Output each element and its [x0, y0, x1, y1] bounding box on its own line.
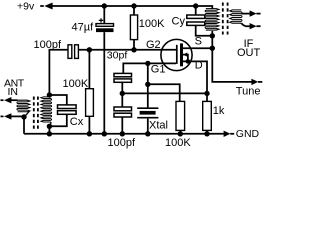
- wire G1 / 30pf wire: [123, 63, 176, 73]
- svg-text:+9v: +9v: [17, 0, 35, 12]
- node IF OUT bottom arrow: [250, 23, 257, 29]
- node junction dot gnd Xtal: [145, 131, 150, 136]
- node junction dot D / 1k / tune line: [204, 91, 209, 96]
- wire 47uf top lead: [103, 6, 105, 24]
- node junction dot G1 node: [145, 61, 150, 66]
- node junction dot T1 secondary top: [47, 92, 52, 97]
- wire T1 secondary bottom to ground rail: [48, 126, 50, 134]
- wire D lead: [183, 61, 207, 93]
- wire ANT bottom arrow tail tick: [1, 115, 4, 117]
- wire ground rail: [24, 133, 224, 135]
- wire ANT bottom lead: [11, 115, 24, 117]
- wire Cy top lead: [195, 6, 197, 15]
- wire G2 lead: [134, 49, 176, 51]
- node ANT top arrow (points left): [4, 97, 11, 103]
- capacitor Cx top plate: [58, 105, 77, 109]
- svg-text:D: D: [195, 60, 203, 72]
- node junction dot gnd R4: [204, 131, 209, 136]
- node junction dot gnd 47uf: [102, 131, 107, 136]
- svg-text:100pf: 100pf: [108, 137, 136, 149]
- resistor R2 body: [86, 89, 94, 117]
- resistor R4 1k body: [203, 101, 212, 130]
- wire tank top to Cx: [49, 95, 66, 105]
- wire Xtal bottom lead: [147, 119, 149, 134]
- svg-text:GND: GND: [236, 128, 260, 140]
- node junction dot top rail / 100K: [131, 3, 136, 8]
- transistor Q1 channel bar: [180, 43, 183, 66]
- wire tune line (to 1k/D node): [122, 92, 207, 94]
- capacitor C2 100pf left plate: [68, 45, 72, 59]
- svg-text:S: S: [195, 35, 202, 47]
- wire Cy bottom lead to coil bottom: [196, 25, 213, 35]
- node junction dot top rail / Cy: [193, 3, 198, 8]
- node ANT bottom arrow (points left): [4, 113, 11, 119]
- node junction dot top rail / 47uf: [102, 3, 107, 8]
- wire top +9v rail: [52, 6, 213, 9]
- wire ANT top lead: [11, 99, 18, 101]
- node junction dot R1 / G2 wire: [131, 47, 136, 52]
- node junction dot T1 secondary bottom: [47, 124, 52, 129]
- wire R2 top lead: [88, 50, 90, 89]
- transistor Q1 substrate arrow line: [183, 55, 188, 62]
- svg-text:100K: 100K: [165, 137, 191, 149]
- wire R2 bottom lead: [88, 116, 90, 134]
- svg-text:OUT: OUT: [237, 47, 261, 59]
- wire ANT top arrow tail tick: [1, 99, 4, 101]
- wire T1 secondary top connector: [49, 95, 51, 97]
- wire T2 primary bottom lead / source column: [212, 31, 252, 82]
- node junction dot substrate/D: [186, 59, 191, 64]
- svg-text:G1: G1: [151, 64, 166, 76]
- capacitor C3 30pf bottom plate: [114, 79, 132, 82]
- svg-text:47µf: 47µf: [72, 22, 95, 34]
- capacitor C2 100pf right plate: [75, 45, 79, 59]
- wire jog to R3 100K: [148, 84, 180, 101]
- node junction dot ANT bottom node: [21, 114, 26, 119]
- node junction dot gnd R2: [87, 131, 92, 136]
- wire 30pf bottom lead: [121, 82, 123, 93]
- capacitor C1 47uf plus sign: [99, 18, 103, 22]
- node junction dot G1 column / R3 jog: [145, 82, 150, 87]
- wire R4 top lead: [206, 93, 208, 101]
- wire GND arrow tail: [230, 133, 234, 135]
- resistor R3 100K body (bottom right): [176, 101, 185, 130]
- svg-text:Tune: Tune: [236, 86, 261, 98]
- node Tune arrow: [251, 79, 258, 85]
- svg-text:1k: 1k: [213, 105, 225, 117]
- capacitor C1 47uf top plate: [96, 24, 114, 27]
- svg-text:Cy: Cy: [172, 15, 186, 27]
- node +9v arrow (points left): [44, 3, 52, 10]
- wire S lead: [183, 47, 212, 49]
- transistor Q1 substrate arrowhead: [183, 52, 187, 56]
- wire ANT node to ground rail: [23, 117, 25, 134]
- inductor T2 primary coil: [205, 9, 219, 30]
- wire IF OUT top arrow tail: [256, 13, 260, 15]
- wire 100pf left lead down to tank top: [49, 50, 68, 95]
- inductor T2 secondary coil: [230, 10, 242, 23]
- transistor Q1 circle: [161, 39, 192, 70]
- node GND arrow (points right): [224, 131, 231, 137]
- wire IF OUT bottom arrow tail: [256, 25, 260, 27]
- wire 100pf right lead / G2 bias wire: [78, 49, 134, 51]
- wire T1 secondary bottom connector: [49, 122, 51, 126]
- transformer T1 core dashes: [34, 97, 38, 131]
- capacitor C3 30pf top plate: [114, 73, 132, 76]
- inductor T1 secondary coil: [41, 97, 52, 122]
- wire C4 leads: [121, 93, 123, 133]
- svg-text:IN: IN: [8, 86, 19, 98]
- wire R3 bottom lead: [179, 130, 181, 133]
- svg-text:Cx: Cx: [70, 116, 84, 128]
- node junction dot gnd C4: [120, 131, 125, 136]
- wire Tune arrow tail: [258, 81, 262, 83]
- wire T1 primary bottom connector: [24, 111, 29, 117]
- node junction dot 100K left top: [87, 47, 92, 52]
- wire G1 node down to Xtal: [147, 63, 149, 107]
- node junction dot gnd T1: [47, 131, 52, 136]
- wire R4 bottom lead: [206, 130, 208, 133]
- capacitor C4 100pf (bottom middle) top plate: [114, 107, 132, 111]
- transistor Q1 gate bar: [176, 45, 178, 64]
- svg-text:G2: G2: [146, 39, 161, 51]
- crystal Xtal body: [140, 111, 156, 115]
- wire 47uf bottom lead to ground rail: [103, 32, 105, 134]
- capacitor Cx bottom plate: [58, 111, 77, 115]
- transformer T2 core dashes: [223, 3, 228, 35]
- crystal Xtal bottom plate: [137, 117, 158, 119]
- wire Cx bottom lead: [49, 114, 66, 126]
- svg-text:Xtal: Xtal: [149, 120, 168, 132]
- resistor R1 body: [130, 15, 137, 40]
- capacitor C1 47uf bottom plate: [96, 28, 114, 32]
- node junction dot gnd R3: [178, 131, 183, 136]
- node junction dot Cy / coil bottom wire: [210, 33, 215, 38]
- wire R1 bottom lead: [133, 40, 135, 50]
- capacitor Cy top plate: [187, 15, 205, 18]
- wire IF OUT bottom lead: [241, 23, 250, 26]
- node junction dot tune line left end: [120, 91, 125, 96]
- svg-text:30pf: 30pf: [107, 50, 128, 62]
- wire +9v arrow tail tick: [40, 5, 44, 7]
- wire IF OUT top lead: [241, 13, 250, 15]
- svg-text:100K: 100K: [139, 18, 165, 30]
- inductor T1 primary coil: [17, 100, 30, 112]
- capacitor Cy bottom plate: [187, 22, 205, 25]
- wire R1 top lead: [133, 6, 135, 15]
- node IF OUT top arrow: [250, 10, 257, 16]
- capacitor C4 100pf bottom plate: [114, 113, 132, 117]
- node junction dot S lead / column: [210, 46, 215, 51]
- crystal Xtal top plate: [137, 107, 158, 109]
